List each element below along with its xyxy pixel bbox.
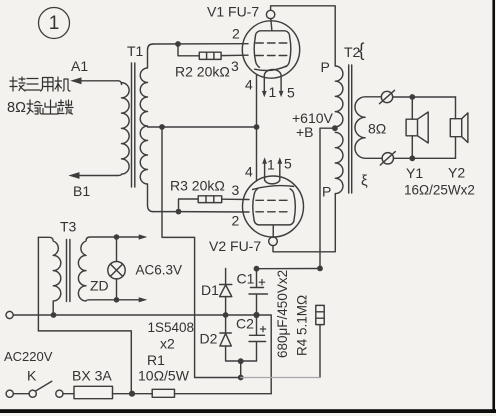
- node junction Y1 bottom: [409, 155, 415, 161]
- tube V2 envelope: [243, 176, 304, 237]
- node A1 arrow (to external amp): [80, 80, 118, 82]
- svg-text:D1: D1: [201, 282, 219, 298]
- svg-text:T1: T1: [127, 43, 144, 59]
- wire R1 to right: [175, 393, 272, 395]
- wire T1 center tap: [148, 126, 163, 128]
- switch K blade: [36, 381, 52, 390]
- scan edge bottom: [0, 409, 496, 413]
- node junction bottom rail 1: [238, 358, 244, 364]
- svg-text:AC6.3V: AC6.3V: [136, 263, 183, 278]
- scan edge right: [492, 0, 495, 409]
- heater arrow top: [117, 236, 140, 238]
- svg-text:4: 4: [245, 77, 253, 93]
- tube V1 heater filament: [264, 69, 281, 91]
- terminal AC top: [6, 311, 13, 318]
- wire R3 to V2 pin3: [222, 198, 249, 200]
- svg-text:Y1: Y1: [406, 165, 423, 181]
- svg-text:2: 2: [232, 26, 240, 42]
- tube V1 grid dashes row pin3: [256, 55, 287, 57]
- wire AC line: [13, 314, 256, 316]
- transformer T1 right (grid) winding: [140, 44, 153, 212]
- tube V2 grid dashes row pin2: [256, 211, 287, 213]
- chinese text line 2: 8 ohm shu chu duan: [7, 100, 26, 116]
- tube V2 heater filament: [265, 164, 280, 184]
- tube V2 anode: [253, 186, 296, 238]
- tube V1 envelope: [242, 21, 299, 78]
- svg-text:B1: B1: [73, 183, 90, 199]
- resistor R1 10ohm/5W: [152, 389, 174, 397]
- svg-text:+B: +B: [296, 124, 314, 140]
- node junction heater top: [114, 234, 120, 240]
- wire B+ to C1: [257, 268, 321, 270]
- svg-text:D2: D2: [200, 331, 218, 347]
- svg-text:A1: A1: [71, 58, 88, 74]
- char chu: [43, 100, 58, 114]
- wire secondary top to speakers: [393, 96, 456, 98]
- svg-text:16Ω/25Wx2: 16Ω/25Wx2: [404, 183, 475, 198]
- svg-text:P: P: [322, 184, 331, 200]
- svg-text:AC220V: AC220V: [4, 349, 53, 364]
- wire V2 cap to T2 bottom: [273, 194, 335, 252]
- wire T1 bottom to V2 grid: [153, 211, 179, 213]
- figure number circle 1: [39, 8, 70, 39]
- transformer T1 left (secondary) winding: [117, 81, 129, 176]
- terminal bottom output: [382, 153, 393, 164]
- node junction R3/T1 bottom: [176, 209, 182, 215]
- svg-text:680μF/450Vx2: 680μF/450Vx2: [275, 270, 290, 358]
- lamp ZD: [116, 237, 118, 300]
- tube V2 top cap: [269, 237, 278, 246]
- chinese text line 1: jie san yong ji: [10, 77, 70, 91]
- char san: [25, 79, 40, 91]
- resistor R2 20k: [199, 52, 221, 59]
- svg-text:Y2: Y2: [448, 165, 465, 181]
- char ji: [55, 77, 70, 91]
- svg-text:V1 FU-7: V1 FU-7: [207, 4, 259, 20]
- wire R2 to V1 pin3: [221, 54, 248, 56]
- transformer T2 primary winding lower: [335, 132, 343, 193]
- svg-text:1S5408: 1S5408: [148, 320, 195, 335]
- tube V1 heater arrows pins 1,5: [262, 91, 284, 97]
- node junction R2/T1 top: [175, 41, 181, 47]
- wire T3 top-terminal line: [38, 331, 131, 394]
- wire +B bracket: [320, 128, 335, 268]
- resistor R3 20k: [198, 196, 222, 203]
- switch K terminal 2: [56, 390, 63, 397]
- transformer T2 primary winding upper: [335, 66, 343, 127]
- svg-text:8Ω: 8Ω: [368, 121, 386, 137]
- wire to Y2: [455, 97, 457, 158]
- svg-text:8Ω: 8Ω: [7, 100, 26, 116]
- terminal AC bottom: [6, 390, 13, 397]
- tube V1 anode: [254, 18, 291, 70]
- node junction T1 tap: [159, 124, 165, 130]
- svg-text:T3: T3: [60, 219, 77, 235]
- diode D2: [220, 315, 257, 361]
- wire bottom rail faint to R4: [241, 377, 320, 379]
- wire R4 bottom: [319, 325, 321, 378]
- svg-text:ξ: ξ: [361, 173, 368, 190]
- transformer T2 core: [349, 65, 352, 193]
- node junction T3 bottom: [51, 312, 57, 318]
- wire V1 cap to T2 top: [271, 6, 336, 66]
- wire tap junction to cathode line: [162, 126, 257, 128]
- node junction fuse/R1: [129, 391, 135, 397]
- svg-text:BX 3A: BX 3A: [72, 368, 112, 384]
- wire secondary bottom to speakers: [394, 157, 456, 159]
- wire: [13, 393, 29, 395]
- svg-text:P: P: [321, 59, 330, 75]
- svg-text:R3 20kΩ: R3 20kΩ: [170, 178, 225, 194]
- char duan: [58, 100, 73, 114]
- svg-text:R1: R1: [147, 352, 165, 368]
- svg-text:2: 2: [232, 213, 240, 229]
- svg-text:R2 20kΩ: R2 20kΩ: [175, 64, 230, 80]
- wire fuse to junction: [113, 393, 153, 395]
- node junction V1/V2 pin4: [254, 124, 260, 130]
- wire V2 pin2: [179, 211, 250, 213]
- svg-text:C2: C2: [236, 316, 254, 332]
- speaker Y1: [406, 119, 417, 136]
- svg-text:10Ω/5W: 10Ω/5W: [138, 368, 190, 384]
- svg-text:ZD: ZD: [90, 278, 109, 294]
- node B1 arrow (to external amp): [78, 175, 117, 177]
- speaker Y2: [450, 119, 461, 137]
- capacitor C2 680uF: [249, 315, 266, 361]
- svg-text:{: {: [359, 40, 365, 60]
- transformer T2 secondary winding: [355, 97, 382, 159]
- wire V1 pin4 down to V2: [256, 74, 258, 181]
- svg-text:x2: x2: [160, 336, 175, 352]
- terminal top output: [381, 91, 392, 102]
- tube V1 top cap: [266, 10, 274, 18]
- svg-text:C1: C1: [237, 271, 255, 287]
- svg-text:5: 5: [284, 156, 292, 172]
- tube V2 grid dashes row pin3: [256, 199, 287, 201]
- switch K terminal: [29, 390, 36, 397]
- svg-text:3: 3: [232, 182, 240, 198]
- svg-text:V2 FU-7: V2 FU-7: [209, 238, 261, 254]
- transformer T3 core: [67, 240, 70, 302]
- wire jog to R3: [179, 199, 199, 212]
- node junction heater bottom: [114, 297, 120, 303]
- diode D1: [220, 269, 232, 316]
- svg-text:4: 4: [245, 164, 253, 180]
- tube V1 grid dashes row pin2: [256, 42, 287, 44]
- resistor R4 5.1M: [316, 305, 324, 324]
- capacitor C1 680uF: [249, 269, 268, 315]
- svg-text:R4 5.1MΩ: R4 5.1MΩ: [295, 295, 310, 356]
- svg-text:5: 5: [287, 85, 295, 101]
- transformer T1 core: [132, 63, 135, 187]
- wire bottom rail link: [240, 361, 242, 377]
- node junction D1/D2: [223, 312, 229, 318]
- transformer T3 right (6.3V) winding: [78, 237, 116, 301]
- wire to fuse: [63, 393, 74, 395]
- wire to Y1: [411, 97, 413, 158]
- svg-text:K: K: [27, 368, 37, 384]
- heater arrow bottom: [117, 299, 140, 301]
- wire AC mid to bottom: [257, 315, 272, 394]
- tube V2 heater arrows pins 1,5: [262, 157, 282, 163]
- char yong: [41, 78, 54, 92]
- svg-text:1: 1: [49, 13, 60, 34]
- node junction C1/C2: [253, 312, 259, 318]
- wire T3 primary top down: [37, 237, 39, 331]
- wire bottom rail: [195, 377, 241, 379]
- svg-text:3: 3: [231, 58, 239, 74]
- wire T1 top to grid line: [153, 43, 248, 45]
- fuse BX 3A: [74, 386, 113, 398]
- node junction bottom rail 2: [238, 375, 244, 381]
- node junction Y1 top: [409, 94, 415, 100]
- node junction R4 top: [317, 266, 323, 272]
- wire jog to R2: [178, 44, 199, 56]
- transformer T3 left (primary) winding: [38, 237, 60, 315]
- char jie: [10, 77, 25, 91]
- node junction C1 top: [254, 266, 260, 272]
- node +B junction T2 center tap: [332, 125, 338, 131]
- char shu: [27, 100, 42, 114]
- wire tap down: [162, 127, 195, 378]
- svg-text:1: 1: [267, 157, 275, 173]
- svg-text:1: 1: [269, 84, 277, 100]
